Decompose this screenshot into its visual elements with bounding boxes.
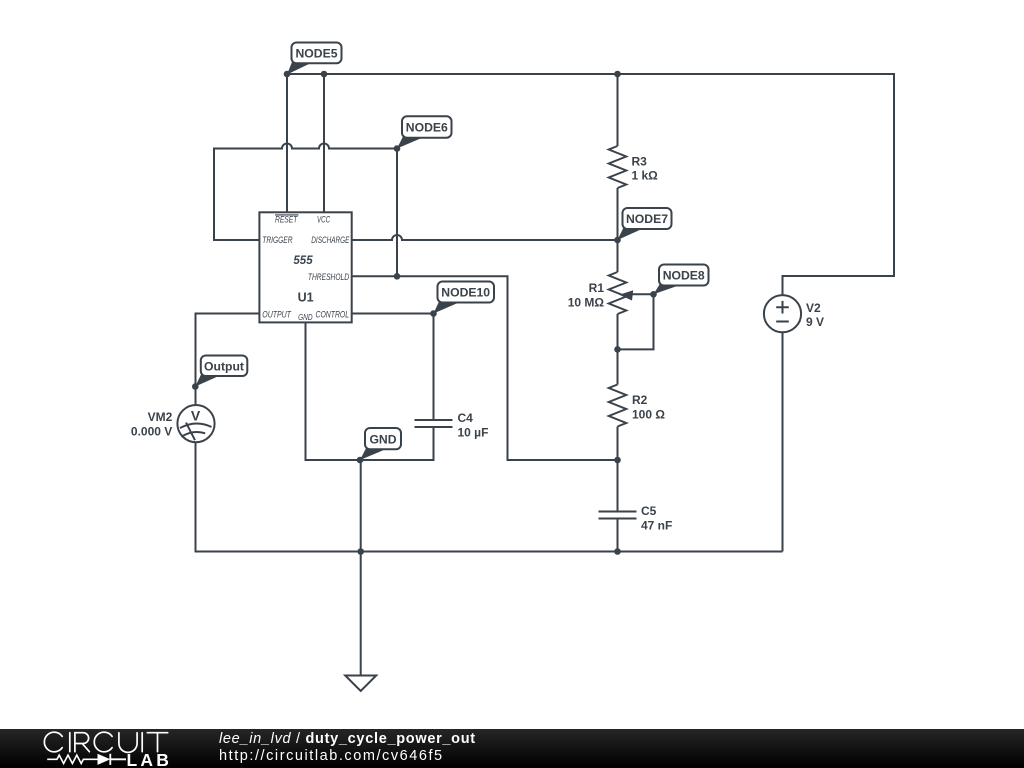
wire RESET pin to top rail (286, 74, 288, 212)
wire VCC pin to top rail (323, 74, 325, 212)
wire THRESHOLD net down and right to R2/C5 node (352, 276, 618, 460)
wire DISCHARGE to NODE7 with hop over NODE6 wire (352, 235, 618, 240)
resistor R2 (609, 385, 627, 427)
junction dot bottom rail at C5 (614, 548, 621, 555)
svg-text:C5: C5 (641, 504, 657, 518)
footer bar (0, 729, 1024, 768)
svg-text:U1: U1 (298, 291, 314, 305)
svg-text:V2: V2 (806, 301, 821, 315)
wire NODE6 vertical to THRESHOLD (396, 149, 398, 277)
junction dot NODE10 (430, 310, 437, 317)
wire R3 bottom to NODE7 to R1 top lead (617, 188, 619, 272)
junction dot NODE6 wire at THRESHOLD (394, 273, 401, 280)
svg-text:Output: Output (204, 359, 244, 373)
svg-text:THRESHOLD: THRESHOLD (308, 272, 350, 282)
junction dot NODE8 (650, 291, 657, 298)
svg-text:10 µF: 10 µF (458, 426, 489, 440)
svg-text:DISCHARGE: DISCHARGE (311, 235, 350, 245)
wire top rail from NODE5 to right drop and V2 top (287, 74, 894, 295)
node GND callout (360, 448, 386, 460)
svg-text:C4: C4 (458, 411, 474, 425)
svg-text:CONTROL: CONTROL (316, 309, 350, 319)
svg-text:R3: R3 (632, 155, 648, 169)
wire VM2 bottom and bottom rail (196, 442, 783, 551)
junction dot bottom rail at ground stem (357, 548, 364, 555)
junction dot R3 at rail (614, 71, 621, 78)
junction dot NODE7 (614, 237, 621, 244)
junction dot Output anchor (192, 383, 199, 390)
op-amp U1 555 timer box (259, 212, 351, 322)
capacitor C4 (415, 420, 453, 427)
wire R1 wiper to NODE8 loop (618, 294, 654, 349)
node NODE6 callout (397, 137, 424, 149)
svg-text:R1: R1 (589, 281, 605, 295)
svg-text:R2: R2 (632, 393, 648, 407)
resistor R1 body (609, 272, 627, 314)
wire TRIGGER loop with hops over RESET and VCC wires (214, 144, 397, 241)
wire C4 bottom to GND pin of 555 (306, 322, 434, 460)
svg-text:9 V: 9 V (806, 315, 824, 329)
svg-text:NODE6: NODE6 (406, 121, 448, 135)
voltmeter VM2 (177, 405, 214, 442)
resistor R3 (609, 146, 627, 188)
svg-text:NODE8: NODE8 (663, 269, 705, 283)
wire OUTPUT to VM2 top (196, 314, 260, 406)
junction dot R1 wiper bottom (614, 346, 621, 353)
junction dot NODE5 (284, 71, 291, 78)
svg-text:NODE10: NODE10 (441, 286, 490, 300)
node NODE8 callout (654, 285, 681, 295)
svg-text:RESET: RESET (275, 214, 298, 224)
svg-text:555: 555 (293, 255, 313, 267)
ground symbol (345, 676, 376, 692)
node NODE10 callout (434, 302, 461, 314)
svg-text:V: V (191, 408, 201, 424)
CircuitLab logo CIRCUIT letters (44, 732, 167, 752)
svg-text:10 MΩ: 10 MΩ (568, 296, 605, 310)
junction dot threshold/R2/C5 node (614, 457, 621, 464)
svg-text:LAB: LAB (127, 750, 173, 768)
R1 wiper arrowhead (619, 290, 633, 300)
node NODE5 callout (287, 62, 312, 75)
svg-text:NODE5: NODE5 (296, 47, 338, 61)
wire C5 bottom to bottom rail (617, 519, 619, 552)
capacitor C5 (599, 512, 637, 519)
voltage source V2 (764, 295, 801, 332)
svg-text:100 Ω: 100 Ω (632, 408, 665, 422)
svg-text:VCC: VCC (317, 214, 331, 224)
svg-text:47 nF: 47 nF (641, 519, 672, 533)
wire R2 bottom to C5 top plate (617, 427, 619, 512)
wire GND stem down to ground (360, 460, 362, 676)
svg-text:NODE7: NODE7 (626, 212, 668, 226)
junction dot VCC at rail (321, 71, 328, 78)
svg-text:OUTPUT: OUTPUT (262, 309, 292, 319)
junction dot NODE6 (394, 145, 401, 152)
wire R1 bottom to R2 top (617, 314, 619, 385)
svg-text:TRIGGER: TRIGGER (262, 235, 293, 245)
svg-text:1 kΩ: 1 kΩ (632, 169, 659, 183)
footer title text (219, 731, 476, 767)
wire V2 bottom to bottom rail (782, 332, 784, 551)
logo resistor and diode glyph (47, 755, 97, 763)
svg-text:VM2: VM2 (148, 410, 173, 424)
svg-text:GND: GND (369, 432, 396, 446)
junction dot GND anchor (357, 457, 364, 464)
wire CONTROL to C4 top (352, 314, 434, 421)
node Output callout (195, 375, 221, 387)
node NODE7 callout (618, 228, 645, 241)
svg-text:GND: GND (298, 313, 313, 322)
svg-text:0.000 V: 0.000 V (131, 424, 172, 438)
wire R3 top lead (617, 74, 619, 146)
